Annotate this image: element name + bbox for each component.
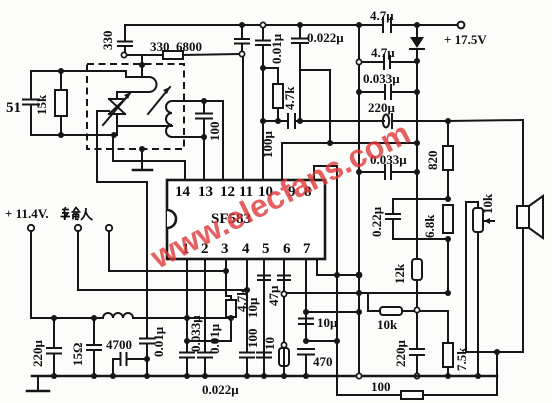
wire jog to pin8/9 row with junction bbox=[300, 69, 330, 71]
svg-text:0.022μ: 0.022μ bbox=[307, 30, 344, 45]
terminal +17.5V with label bbox=[458, 22, 465, 29]
wire pins 8 and 9 row with junction bbox=[282, 142, 417, 144]
resistor 10k with value label, node circle, and resistor 7.5k with junction and value label bbox=[368, 310, 380, 312]
capacitor 220u output with node circle and value label bbox=[416, 313, 418, 347]
resistor 330 with value label bbox=[163, 51, 183, 59]
wire right bus A with node circle and junction bbox=[356, 59, 361, 64]
svg-text:5: 5 bbox=[262, 241, 270, 257]
svg-text:6: 6 bbox=[283, 241, 291, 257]
tuning arrow 2 bbox=[148, 87, 170, 114]
wire supply row with inductor bumps and junctions bbox=[31, 317, 103, 319]
inductor loop top with junction bbox=[141, 55, 143, 76]
wire +17.5V supply rail bbox=[125, 24, 382, 26]
wire ground bus with node circles and junctions bbox=[32, 375, 497, 378]
capacitor 470 with junction and value label bbox=[298, 348, 314, 350]
capacitor 6800 with rail junction and node circle bbox=[239, 22, 245, 28]
svg-text:14: 14 bbox=[175, 184, 191, 200]
op-amp IC U1 SF583 body with notch and name label bbox=[167, 180, 325, 259]
svg-text:+ 17.5V: + 17.5V bbox=[444, 32, 487, 47]
resistor 100 bottom loop with wires and value label bbox=[338, 394, 401, 396]
svg-text:10μ: 10μ bbox=[245, 297, 260, 318]
capacitor 0.01u with node circle and value label bbox=[260, 22, 265, 27]
ground oscillator with junction bbox=[139, 146, 145, 152]
capacitor 0.22u and resistor 6.8k parallel pair with junctions and value labels bbox=[445, 196, 451, 202]
svg-text:6.8k: 6.8k bbox=[422, 214, 437, 238]
capacitor 100u with value label and wire bbox=[287, 114, 289, 128]
wire 100u row bbox=[263, 120, 287, 122]
svg-text:470: 470 bbox=[313, 354, 333, 369]
wire 6.8k bottom to feedback row with junction bbox=[447, 239, 449, 293]
wire to IC pin 12 bbox=[204, 100, 223, 102]
svg-text:4: 4 bbox=[242, 241, 250, 257]
wire to IC pin 11 bbox=[242, 57, 244, 179]
capacitor 0.01u on IC pin 2 with junction and value label bbox=[204, 259, 206, 352]
svg-text:15Ω: 15Ω bbox=[70, 343, 85, 366]
input label (Chinese) bbox=[61, 207, 93, 220]
svg-text:10k: 10k bbox=[377, 317, 398, 332]
svg-text:0.01μ: 0.01μ bbox=[207, 323, 222, 354]
wire IC pin 7 column with junctions bbox=[305, 259, 307, 341]
wire right bus B bbox=[416, 61, 418, 259]
dashed oscillator module box bbox=[87, 64, 184, 149]
capacitor 0.033u on IC pin 1 with junctions and value label bbox=[186, 259, 188, 352]
svg-text:220μ: 220μ bbox=[368, 100, 396, 115]
capacitor 0.033u with junctions and value label bbox=[356, 89, 362, 95]
svg-text:100μ: 100μ bbox=[260, 131, 275, 159]
svg-text:4700: 4700 bbox=[106, 337, 132, 352]
capacitor 0.01u bottom-left with junctions and value label bbox=[140, 338, 154, 340]
svg-text:4.7k: 4.7k bbox=[282, 86, 297, 110]
wire to 6800 node bbox=[183, 54, 239, 55]
svg-text:0.22μ: 0.22μ bbox=[369, 206, 384, 237]
svg-text:10: 10 bbox=[262, 337, 277, 350]
capacitor 4.7u second with value label bbox=[362, 61, 383, 63]
varactor diode pair (tuning) bbox=[109, 99, 125, 114]
tuning arrow 1 bbox=[103, 92, 131, 125]
svg-text:220μ: 220μ bbox=[30, 340, 45, 368]
resistor 820 with value label bbox=[447, 121, 449, 146]
svg-text:330: 330 bbox=[150, 39, 170, 54]
capacitor on IC pin 4 with junction bbox=[246, 259, 248, 352]
capacitor 220u input with value label bbox=[53, 318, 55, 347]
resistor 12k with value label and node circle bbox=[412, 259, 422, 280]
resistor 10k vertical with junction, value label and leader arrow bbox=[465, 202, 467, 352]
capacitor 47u and resistor 10 on IC pin 6 with node circles, junction and value labels bbox=[283, 259, 285, 376]
svg-text:12: 12 bbox=[220, 184, 235, 200]
svg-text:0.022μ: 0.022μ bbox=[202, 382, 239, 397]
capacitor 15ohm with value label bbox=[93, 318, 95, 344]
wire supply input and wire signal inputs with junctions bbox=[30, 231, 32, 318]
junction and wire to 4.7k bbox=[260, 65, 266, 71]
svg-text:220μ: 220μ bbox=[393, 340, 408, 368]
capacitor 4700 with junction and value label bbox=[113, 358, 119, 360]
svg-text:820: 820 bbox=[425, 151, 440, 171]
svg-text:+ 11.4V.: + 11.4V. bbox=[5, 206, 49, 221]
svg-text:10k: 10k bbox=[480, 193, 495, 214]
svg-text:10μ: 10μ bbox=[317, 315, 338, 330]
wire jog to 10k row bbox=[367, 293, 369, 311]
capacitor 4.7u (series in rail) with value label bbox=[382, 18, 384, 32]
wire feedback row with junction bbox=[286, 292, 448, 294]
inductor L1 with wires bbox=[166, 101, 172, 137]
capacitor 0.033u second with junctions and value label bbox=[356, 169, 362, 175]
capacitor 10u and capacitor 100 on IC pin 5 with junction and value labels bbox=[263, 259, 265, 376]
diode D1 with junctions bbox=[414, 22, 420, 28]
svg-text:47μ: 47μ bbox=[266, 285, 281, 306]
svg-text:51: 51 bbox=[6, 100, 21, 116]
svg-text:100: 100 bbox=[371, 379, 391, 394]
resistor 4.7k on IC pin 3 with junction bbox=[225, 259, 227, 296]
svg-text:0.01μ: 0.01μ bbox=[269, 33, 284, 64]
capacitor 330 with node circle and value label bbox=[124, 25, 126, 41]
wire speaker feed and return with junction bbox=[522, 120, 524, 206]
capacitor 51, resistor 15k with wires, junctions and value labels bbox=[30, 71, 32, 98]
resistor 4.7k with junction and value label bbox=[277, 68, 279, 84]
svg-text:0.033μ: 0.033μ bbox=[363, 71, 400, 86]
svg-text:12k: 12k bbox=[392, 263, 407, 284]
capacitor 220u electrolytic with value label and wires bbox=[359, 120, 384, 122]
wire varactor to IC pin 14 and wire varactor to bottom bbox=[112, 135, 114, 161]
ground symbol with 0.022u value label bbox=[37, 376, 39, 390]
capacitor 100 with junctions and value label bbox=[201, 98, 207, 104]
svg-text:13: 13 bbox=[198, 184, 213, 200]
svg-text:0.01μ: 0.01μ bbox=[151, 326, 166, 357]
wire to IC pin 13 bbox=[203, 137, 205, 179]
wire to IC pin 10 with junction bbox=[262, 68, 264, 179]
wire oscillator interior bbox=[117, 125, 172, 127]
svg-text:0.033μ: 0.033μ bbox=[188, 315, 203, 352]
svg-text:330: 330 bbox=[100, 31, 115, 51]
svg-text:4.7μ: 4.7μ bbox=[370, 8, 394, 23]
svg-text:6800: 6800 bbox=[176, 39, 202, 54]
svg-text:100: 100 bbox=[207, 122, 222, 142]
svg-text:7: 7 bbox=[303, 241, 311, 257]
wire oscillator row bbox=[127, 54, 163, 56]
wire to bottom feedback loop with junction bbox=[306, 340, 337, 342]
capacitor 10u with value label and junction bbox=[299, 318, 313, 320]
speaker LS1 bbox=[517, 206, 529, 228]
svg-text:100: 100 bbox=[245, 329, 260, 349]
wire 4.7k bottom to pin1 column bbox=[187, 340, 226, 342]
capacitor 0.022u with junctions and value label bbox=[297, 22, 303, 28]
svg-text:15k: 15k bbox=[34, 94, 49, 115]
svg-text:4.7μ: 4.7μ bbox=[371, 45, 395, 60]
